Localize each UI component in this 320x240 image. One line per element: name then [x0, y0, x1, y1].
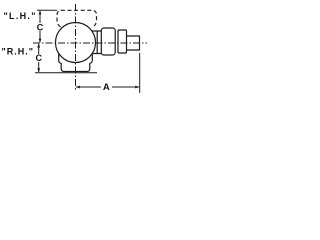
hidden handwheel (dashed) — [57, 10, 97, 27]
svg-text:A: A — [103, 82, 110, 93]
dimension A arrow right — [135, 86, 139, 89]
dimension A arrow left — [76, 86, 80, 89]
tailpiece collar — [118, 30, 127, 53]
pipe — [127, 36, 140, 50]
dimension C upper line — [39, 11, 41, 43]
vertical centerline — [75, 4, 77, 90]
svg-text:C: C — [35, 53, 42, 63]
bottom extension line — [35, 72, 97, 74]
right extension line — [139, 53, 141, 93]
dimension C upper arrow down — [39, 39, 42, 43]
dimension C upper arrow up — [39, 10, 42, 14]
dimension C lower arrow down — [37, 68, 40, 72]
svg-text:C: C — [37, 22, 44, 32]
dimension C lower line — [38, 44, 40, 72]
union nut — [101, 28, 115, 55]
svg-text:"R.H.": "R.H." — [1, 46, 34, 56]
valve base — [59, 54, 93, 72]
horizontal centerline — [33, 42, 147, 44]
valve body circle — [56, 23, 96, 63]
dimension C lower arrow up — [37, 43, 40, 47]
top extension line — [37, 9, 57, 11]
outlet neck — [92, 31, 101, 55]
dimension A line — [76, 86, 139, 88]
svg-text:"L.H.": "L.H." — [3, 11, 36, 21]
